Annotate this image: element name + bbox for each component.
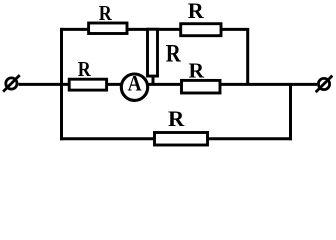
resistor R top-left (89, 23, 127, 34)
resistor R middle-left (69, 79, 106, 90)
resistor R bottom (155, 133, 208, 146)
resistor R top-right (181, 24, 221, 36)
terminal left (input) (3, 75, 20, 92)
resistor R vertical (middle branch) (148, 29, 158, 76)
terminal right (output) (316, 76, 333, 93)
wire: middle rail (63, 83, 317, 86)
svg-text:R: R (189, 58, 205, 82)
svg-text:A: A (128, 70, 142, 95)
wire: left vertical (top rail to bottom rail) (60, 28, 63, 140)
svg-text:R: R (78, 57, 92, 81)
wire: right vertical from top rail to middle rail (246, 29, 249, 84)
resistor R middle-right (182, 80, 221, 93)
wire: right vertical from middle rail to bottom rail (289, 84, 292, 140)
svg-text:R: R (166, 41, 182, 68)
ammeter A (circle) (121, 74, 147, 100)
wire: top rail (60, 28, 249, 31)
svg-text:R: R (188, 0, 205, 23)
svg-text:R: R (99, 1, 113, 25)
wire: bottom rail (60, 137, 292, 140)
svg-text:R: R (168, 106, 185, 131)
wire: lead from vertical resistor to middle rail (152, 76, 155, 84)
wire: left terminal to left node (19, 83, 64, 86)
